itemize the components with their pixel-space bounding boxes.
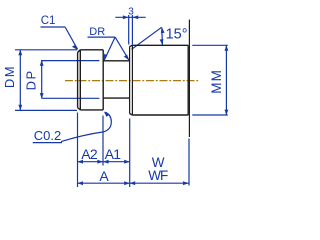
svg-text:DM: DM [2,65,17,88]
wire chamfer jog bottom [130,114,133,116]
wire body face [131,45,133,115]
arrow C0.2 tip [104,112,110,117]
dimension line work [15,15,228,187]
wire chamfer circle line [79,50,81,110]
wire groove top edge [103,60,130,62]
wire MM extension top [192,44,228,46]
wire body bottom edge [132,114,188,116]
wire C1 leader [65,27,77,49]
arrow A1 right [124,160,130,164]
svg-text:15°: 15° [166,27,188,43]
svg-text:C0.2: C0.2 [34,128,61,143]
svg-text:DR: DR [89,26,105,38]
wire DP dimension line [41,61,43,99]
wire MM dimension line [225,45,227,115]
wire body right edge [187,45,189,115]
wire DR underline [88,36,116,38]
arrow 15deg bottom [160,39,164,45]
wire chamfer bottom-left [78,108,81,110]
arrow A right [124,181,130,185]
wire A WF dimension row [78,182,189,184]
wire C0.2 underline [33,142,62,144]
svg-text:A2: A2 [81,146,98,162]
arrow 15deg top [161,27,165,33]
arrow DP bottom [40,93,44,99]
wire DP thread line bottom [42,97,100,99]
arrow A2 left [77,160,83,164]
svg-text:MM: MM [209,69,224,94]
arrow A left [77,181,83,185]
wire groove bottom edge [103,97,130,99]
arrowheads [18,15,228,185]
arrow DP top [40,60,44,66]
wire DM dimension line [19,50,21,110]
wire thread bottom edge [80,109,103,111]
wire 15deg angle arrow line [161,28,164,45]
wire 15deg chamfer reference diagonal [132,27,162,49]
arrow MM bottom [225,110,229,116]
wire 3 extension left [128,15,130,45]
wire DM extension top [15,49,77,51]
arrow DM top [18,50,22,56]
wire A2 A1 dimension row [78,161,130,163]
arrow WF right [183,181,189,185]
svg-text:DP: DP [24,69,39,90]
wire thread right edge [102,50,104,110]
wire C0.2 leader with hook [61,112,111,141]
arrow DR right tip [124,55,129,61]
wire DR leader right [115,37,129,60]
svg-text:A1: A1 [105,146,122,162]
wire 3 extension right [131,15,133,45]
arrow A1 left [103,160,109,164]
part outline group [78,20,190,137]
arrow MM top [225,45,229,51]
wire W/WF right extension [188,139,190,186]
wire thread top edge [80,49,103,51]
wire A2 extension left [77,113,79,188]
centerline (dash-dot axis) [65,80,200,82]
wire left face of stud [77,52,79,107]
svg-text:3: 3 [128,6,134,17]
wire A2/A1 shared extension [102,116,104,166]
wire 3 dimension line [115,16,145,18]
svg-text:WF: WF [148,168,168,183]
wire MM extension bottom [192,114,228,116]
wire DP thread line top [41,60,99,62]
arrow DR left tip [104,54,107,61]
wire chamfer jog top [130,45,133,46]
wire C1 underline [41,26,66,28]
arrow WF left [130,181,136,185]
wire mating face line [188,20,190,137]
wire A/WF shared extension [129,119,131,188]
wire DM extension bottom [15,109,77,111]
wire groove right wall [129,47,131,114]
arrow A2 right [97,160,103,164]
arrow C1 leader tip [72,45,78,50]
arrow 3 right (pointing left) [133,15,139,19]
arrow DM bottom [18,105,22,111]
wire DR leader left [104,37,115,60]
wire chamfer C1 top-left [78,50,81,53]
svg-text:A: A [99,168,109,184]
wire body top edge [132,44,188,46]
arrow 3 left (pointing right) [123,15,129,19]
svg-text:C1: C1 [41,15,56,27]
